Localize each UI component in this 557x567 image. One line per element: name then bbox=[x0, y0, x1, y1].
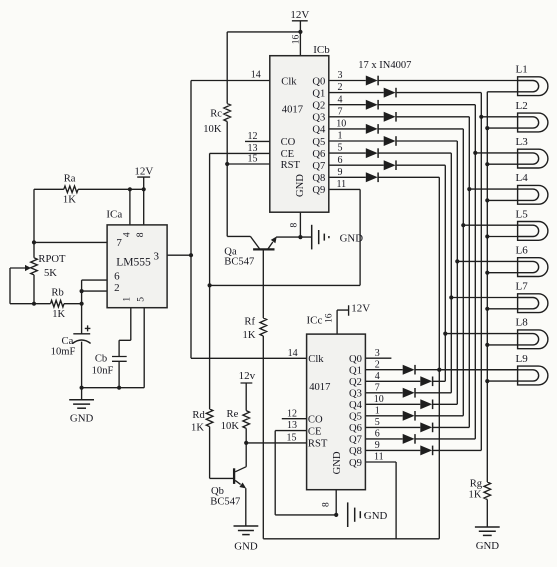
svg-text:1: 1 bbox=[338, 131, 343, 142]
svg-text:1K: 1K bbox=[469, 489, 482, 500]
svg-text:Q3: Q3 bbox=[312, 113, 325, 124]
svg-text:Q8: Q8 bbox=[312, 173, 325, 184]
svg-text:Re: Re bbox=[227, 409, 239, 420]
svg-text:BC547: BC547 bbox=[224, 256, 254, 267]
svg-text:Q4: Q4 bbox=[312, 125, 326, 136]
svg-text:Q0: Q0 bbox=[312, 76, 325, 87]
svg-text:Rc: Rc bbox=[210, 109, 222, 120]
svg-text:GND: GND bbox=[295, 174, 306, 197]
svg-text:12V: 12V bbox=[134, 166, 153, 178]
svg-text:4: 4 bbox=[338, 94, 343, 105]
svg-text:5: 5 bbox=[137, 297, 147, 302]
svg-text:GND: GND bbox=[332, 451, 343, 474]
svg-text:L5: L5 bbox=[516, 208, 529, 220]
svg-text:7: 7 bbox=[116, 237, 122, 249]
svg-text:9: 9 bbox=[375, 440, 380, 451]
svg-text:L2: L2 bbox=[516, 100, 528, 112]
svg-text:GND: GND bbox=[364, 510, 388, 522]
svg-text:RST: RST bbox=[281, 160, 301, 171]
svg-text:5: 5 bbox=[338, 143, 343, 154]
svg-text:1K: 1K bbox=[243, 330, 256, 341]
svg-text:6: 6 bbox=[114, 271, 120, 283]
svg-text:Cb: Cb bbox=[95, 354, 107, 365]
svg-text:ICc: ICc bbox=[307, 315, 323, 327]
svg-text:14: 14 bbox=[251, 70, 261, 81]
svg-text:8: 8 bbox=[289, 222, 299, 227]
svg-text:L3: L3 bbox=[516, 136, 529, 148]
svg-text:8: 8 bbox=[322, 502, 332, 507]
svg-text:Q1: Q1 bbox=[312, 88, 325, 99]
svg-text:4017: 4017 bbox=[309, 382, 330, 393]
svg-text:Q2: Q2 bbox=[312, 101, 325, 112]
svg-text:Q6: Q6 bbox=[312, 149, 325, 160]
svg-text:Q7: Q7 bbox=[349, 435, 362, 446]
svg-text:L9: L9 bbox=[516, 353, 529, 365]
svg-text:Q9: Q9 bbox=[312, 185, 325, 196]
svg-text:Q6: Q6 bbox=[349, 423, 362, 434]
svg-text:CE: CE bbox=[281, 149, 295, 160]
svg-text:12V: 12V bbox=[351, 303, 370, 315]
svg-text:4: 4 bbox=[375, 371, 380, 382]
svg-text:15: 15 bbox=[248, 153, 258, 164]
svg-text:RST: RST bbox=[308, 438, 328, 449]
svg-text:Q5: Q5 bbox=[349, 412, 362, 423]
svg-text:7: 7 bbox=[338, 106, 343, 117]
svg-text:Q9: Q9 bbox=[349, 458, 362, 469]
svg-text:Qb: Qb bbox=[211, 486, 224, 497]
svg-text:CE: CE bbox=[308, 426, 322, 437]
svg-text:1: 1 bbox=[122, 297, 132, 302]
svg-text:Q3: Q3 bbox=[349, 389, 362, 400]
svg-text:L4: L4 bbox=[516, 172, 529, 184]
svg-text:Clk: Clk bbox=[281, 76, 297, 87]
svg-text:10nF: 10nF bbox=[92, 365, 114, 376]
svg-text:GND: GND bbox=[70, 412, 94, 424]
svg-text:5: 5 bbox=[375, 417, 380, 428]
svg-text:RPOT: RPOT bbox=[38, 254, 66, 265]
svg-text:14: 14 bbox=[288, 348, 298, 359]
svg-text:LM555: LM555 bbox=[116, 256, 151, 268]
svg-text:CO: CO bbox=[308, 415, 323, 426]
svg-text:15: 15 bbox=[287, 433, 297, 444]
svg-text:16: 16 bbox=[325, 313, 335, 323]
svg-text:10: 10 bbox=[336, 119, 346, 130]
svg-text:13: 13 bbox=[248, 143, 258, 154]
svg-text:Q8: Q8 bbox=[349, 446, 362, 457]
svg-text:16: 16 bbox=[291, 35, 301, 45]
svg-text:10K: 10K bbox=[221, 421, 240, 432]
svg-text:10K: 10K bbox=[203, 124, 222, 135]
svg-text:2: 2 bbox=[114, 282, 120, 294]
svg-text:1: 1 bbox=[375, 405, 380, 416]
svg-text:3: 3 bbox=[338, 70, 343, 81]
svg-text:Ra: Ra bbox=[64, 174, 76, 185]
svg-text:8: 8 bbox=[136, 232, 146, 237]
svg-text:1K: 1K bbox=[191, 423, 204, 434]
svg-text:2: 2 bbox=[375, 359, 380, 370]
svg-text:6: 6 bbox=[375, 429, 380, 440]
svg-text:6: 6 bbox=[338, 155, 343, 166]
svg-text:12: 12 bbox=[287, 408, 297, 419]
svg-text:5K: 5K bbox=[44, 268, 57, 279]
svg-text:L1: L1 bbox=[516, 64, 528, 76]
svg-text:Clk: Clk bbox=[308, 354, 324, 365]
svg-text:4: 4 bbox=[122, 232, 132, 237]
svg-text:11: 11 bbox=[374, 452, 384, 463]
svg-text:2: 2 bbox=[338, 82, 343, 93]
svg-text:12V: 12V bbox=[290, 9, 309, 21]
svg-text:Q4: Q4 bbox=[349, 400, 363, 411]
svg-text:11: 11 bbox=[336, 179, 346, 190]
svg-text:Ca: Ca bbox=[62, 336, 74, 347]
svg-text:Rb: Rb bbox=[51, 288, 63, 299]
svg-text:12v: 12v bbox=[239, 370, 256, 382]
svg-text:9: 9 bbox=[338, 167, 343, 178]
svg-text:Q1: Q1 bbox=[349, 366, 362, 377]
svg-text:10mF: 10mF bbox=[51, 347, 76, 358]
svg-text:ICa: ICa bbox=[106, 209, 122, 221]
svg-text:13: 13 bbox=[287, 420, 297, 431]
svg-text:CO: CO bbox=[281, 137, 296, 148]
svg-text:ICb: ICb bbox=[313, 44, 330, 56]
svg-text:4017: 4017 bbox=[282, 104, 303, 115]
svg-text:Q0: Q0 bbox=[349, 354, 362, 365]
svg-text:L6: L6 bbox=[516, 245, 529, 257]
svg-text:3: 3 bbox=[154, 250, 160, 262]
svg-text:12: 12 bbox=[248, 131, 258, 142]
svg-text:BC547: BC547 bbox=[210, 497, 240, 508]
svg-text:Q5: Q5 bbox=[312, 137, 325, 148]
svg-text:7: 7 bbox=[375, 382, 380, 393]
svg-text:Rf: Rf bbox=[244, 316, 255, 327]
svg-text:GND: GND bbox=[476, 540, 500, 552]
svg-text:Q2: Q2 bbox=[349, 377, 362, 388]
svg-text:Rg: Rg bbox=[470, 479, 483, 490]
svg-text:Q7: Q7 bbox=[312, 161, 325, 172]
svg-text:Rd: Rd bbox=[192, 410, 205, 421]
svg-text:GND: GND bbox=[234, 540, 258, 552]
svg-text:1K: 1K bbox=[52, 309, 65, 320]
svg-text:17 x IN4007: 17 x IN4007 bbox=[358, 60, 411, 71]
svg-text:10: 10 bbox=[374, 394, 384, 405]
svg-text:GND: GND bbox=[340, 232, 364, 244]
svg-text:1K: 1K bbox=[63, 194, 76, 205]
svg-text:L7: L7 bbox=[516, 281, 529, 293]
svg-text:L8: L8 bbox=[516, 317, 529, 329]
svg-text:3: 3 bbox=[375, 348, 380, 359]
